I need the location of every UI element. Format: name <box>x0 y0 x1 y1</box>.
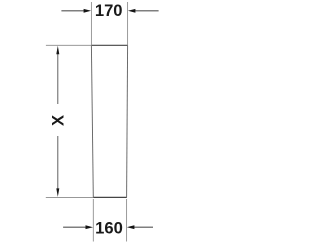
pedestal right edge <box>127 45 128 197</box>
pedestal outline (tapered front view) <box>91 45 127 197</box>
extension line left of dimension 160 <box>92 199 94 242</box>
svg-text:X: X <box>48 115 67 126</box>
extension line right of dimension 160 <box>126 199 128 242</box>
dimension 160 right arrow line <box>133 226 153 228</box>
pedestal top edge <box>91 44 128 46</box>
pedestal left edge <box>91 45 93 197</box>
pedestal bottom edge <box>93 196 127 198</box>
dimension 170 left arrow line <box>61 10 85 12</box>
dimension 170 right arrowhead <box>128 9 135 13</box>
dimension 170 right arrow line <box>134 10 158 12</box>
dimension X lower arrowhead <box>56 188 59 197</box>
svg-text:160: 160 <box>95 218 123 237</box>
dimension X upper arrowhead <box>56 46 59 55</box>
extension line bottom of dimension X <box>46 196 94 198</box>
extension line right of dimension 170 <box>127 2 129 45</box>
dimension 170 left arrowhead <box>84 9 92 13</box>
dimension 160 left arrowhead <box>86 225 94 229</box>
extension line top of dimension X <box>46 44 92 46</box>
svg-text:170: 170 <box>95 1 123 20</box>
dimension X lower arrow line <box>57 136 59 190</box>
extension line left of dimension 170 <box>90 2 92 45</box>
dimension 160 right arrowhead <box>127 225 134 229</box>
dimension 160 left arrow line <box>63 226 87 228</box>
dimension X upper arrow line <box>57 53 59 104</box>
